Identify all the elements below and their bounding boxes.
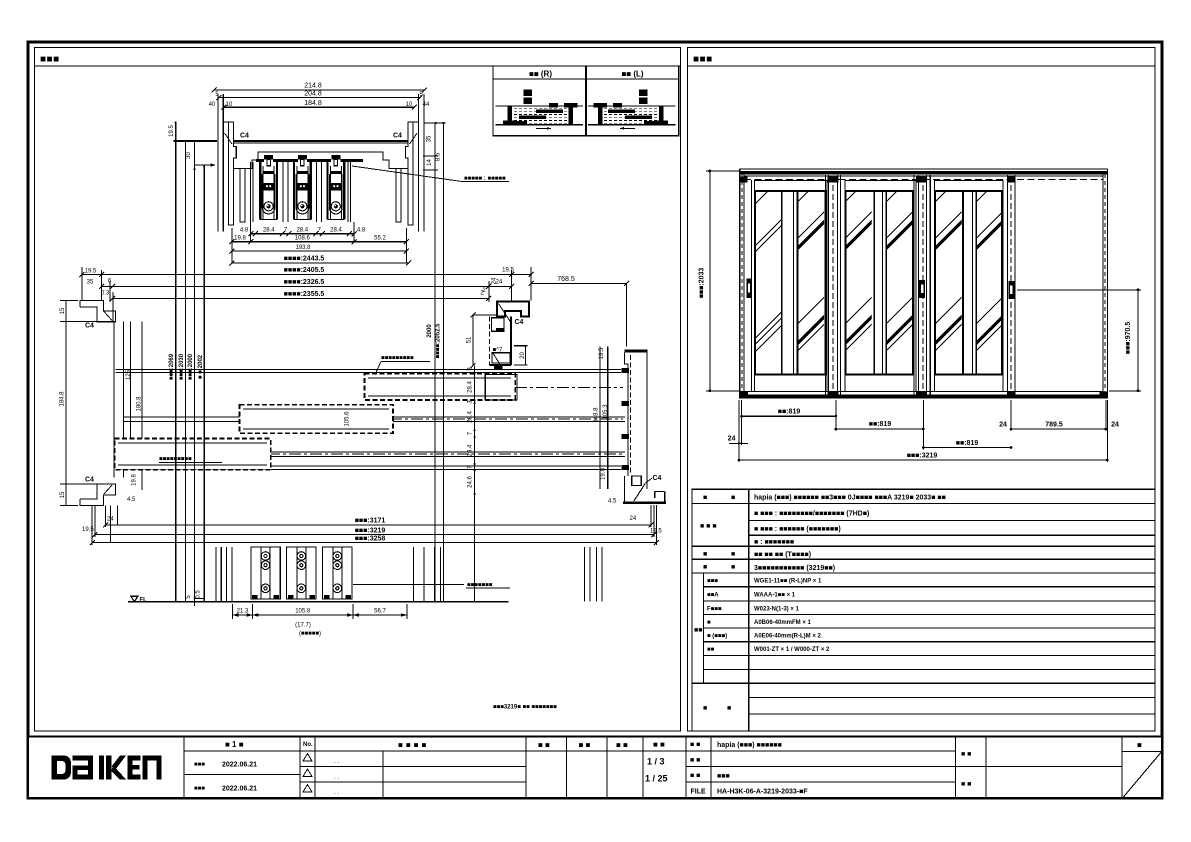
svg-text:■■■:3258: ■■■:3258 — [355, 535, 386, 542]
svg-text:■■ (R): ■■ (R) — [529, 70, 552, 79]
svg-text:56.7: 56.7 — [374, 608, 386, 614]
door B (dashed, middle) — [240, 405, 394, 434]
dim 2355.5 — [113, 297, 489, 299]
row 193.8 — [232, 250, 407, 252]
PLAN SECTION (middle of left panel) — [60, 122, 667, 601]
extension verticals left — [82, 267, 531, 322]
svg-text:■■: ■■ — [694, 627, 702, 634]
hanger/door assembly 2 — [294, 155, 311, 220]
flat rail leader — [353, 584, 464, 586]
svg-text:FILE: FILE — [691, 789, 706, 796]
door leaf 3 — [935, 181, 1003, 392]
svg-text:108.6: 108.6 — [295, 236, 311, 242]
SPEC TABLE — [692, 489, 1155, 731]
svg-text:C4: C4 — [85, 477, 94, 484]
svg-text:■■A: ■■A — [707, 593, 719, 599]
svg-text:■: ■ — [731, 564, 735, 571]
svg-text:1 / 3: 1 / 3 — [647, 757, 665, 767]
sub jamb (mullion) plan — [467, 277, 529, 369]
sill dims — [232, 614, 407, 616]
door C (dashed, bottom) — [115, 439, 271, 470]
head detail dims below — [229, 222, 409, 263]
svg-text:24: 24 — [728, 436, 736, 443]
DAIKEN logo — [52, 756, 162, 780]
svg-text:No.: No. — [303, 742, 313, 748]
svg-text:■■■:3171: ■■■:3171 — [355, 518, 386, 525]
svg-text:184.8: 184.8 — [304, 100, 322, 107]
svg-text:28.4: 28.4 — [296, 228, 308, 234]
left wall line — [173, 140, 217, 142]
svg-text:193.8: 193.8 — [295, 245, 311, 251]
dim row 4: overall width 3219 — [739, 459, 1107, 461]
svg-text:105.3: 105.3 — [603, 404, 609, 420]
roller unit 1 — [251, 547, 280, 599]
svg-text:789.5: 789.5 — [1045, 421, 1063, 428]
frame right stile — [1100, 169, 1109, 399]
door leaf 2 — [845, 181, 916, 392]
svg-text:. .: . . — [334, 790, 339, 796]
svg-text:2022.06.21: 2022.06.21 — [222, 762, 257, 769]
door bottom bars — [216, 547, 602, 602]
svg-text:204.8: 204.8 — [304, 91, 322, 98]
hanger/door assembly 1 — [260, 155, 277, 220]
svg-text:■■: ■■ — [707, 647, 715, 653]
svg-text:■■■: ■■■ — [194, 786, 205, 792]
svg-text:F■■■: F■■■ — [707, 607, 722, 613]
svg-text:■■■■:2355.5: ■■■■:2355.5 — [284, 291, 325, 298]
svg-text:0.5: 0.5 — [196, 590, 202, 599]
svg-text:180.8: 180.8 — [137, 396, 143, 412]
svg-text:1 / 25: 1 / 25 — [645, 774, 668, 784]
svg-text:■■■■■■■: ■■■■■■■ — [467, 582, 493, 588]
svg-text:10: 10 — [406, 102, 413, 108]
frame left stile — [740, 169, 755, 399]
door A leader note — [376, 356, 431, 374]
dim 2405.5 — [82, 274, 531, 276]
svg-text:■■■:2069: ■■■:2069 — [169, 353, 175, 380]
svg-text:28.4: 28.4 — [467, 381, 473, 393]
FL marker — [131, 596, 138, 601]
svg-text:■: ■ — [731, 495, 735, 502]
svg-text:0.3: 0.3 — [101, 291, 110, 297]
svg-text:■■■■:2052.5: ■■■■:2052.5 — [436, 323, 442, 359]
svg-text:WGE1-11■■ (R-L)NP × 1: WGE1-11■■ (R-L)NP × 1 — [754, 579, 822, 585]
svg-text:30: 30 — [186, 152, 192, 159]
title block column lines — [184, 737, 1122, 799]
long dim 3219 — [95, 534, 654, 536]
svg-text:HA-H3K-06-A-3219-2033-■F: HA-H3K-06-A-3219-2033-■F — [717, 789, 808, 796]
svg-text:8.5: 8.5 — [436, 152, 442, 161]
door1 glass lite B diagonals — [797, 173, 827, 352]
svg-text:105.8: 105.8 — [295, 608, 311, 614]
frame bottom / floor line — [740, 391, 1108, 396]
svg-text:■■■:3219: ■■■:3219 — [907, 452, 938, 459]
svg-text:hapia (■■■) ■■■■■■: hapia (■■■) ■■■■■■ — [717, 742, 782, 749]
door A (dashed, top) — [364, 374, 517, 401]
ELEVATION VIEW (front view of 3-panel sliding door) — [699, 169, 1142, 462]
svg-text:28.4: 28.4 — [467, 411, 473, 423]
svg-text:19.5: 19.5 — [85, 268, 97, 274]
svg-text:WAAA-1■■ × 1: WAAA-1■■ × 1 — [754, 593, 796, 599]
svg-text:■ ■: ■ ■ — [653, 740, 665, 749]
svg-text:■■■■:2443.5: ■■■■:2443.5 — [284, 256, 325, 263]
rail web lines between hangers — [251, 162, 351, 222]
right jamb head — [393, 94, 424, 232]
small side dims of head section — [186, 122, 446, 170]
rail leader note — [352, 166, 509, 182]
mini diagram right-pull — [496, 90, 583, 130]
hanger/door assembly 3 — [327, 155, 344, 220]
svg-text:4.5: 4.5 — [608, 499, 617, 505]
svg-text:40: 40 — [209, 102, 216, 108]
svg-text:■■:819: ■■:819 — [778, 409, 801, 416]
svg-text:28.4: 28.4 — [263, 228, 275, 234]
right jamb bottom hook — [624, 476, 626, 503]
svg-text:28.4: 28.4 — [467, 444, 473, 456]
extension verticals — [232, 222, 407, 263]
svg-text:■ ■: ■ ■ — [961, 781, 971, 788]
svg-text:C4: C4 — [515, 319, 524, 326]
svg-text:■ ■: ■ ■ — [690, 757, 700, 764]
svg-text:■ ■: ■ ■ — [579, 741, 591, 750]
elevation bottom dimensions — [728, 400, 1119, 462]
svg-text:■■■: ■■■ — [707, 579, 718, 585]
svg-text:35: 35 — [87, 280, 94, 286]
svg-text:55.2: 55.2 — [374, 236, 386, 242]
frame top rail — [740, 169, 1108, 180]
svg-text:■■■3219■ ■■ ■■■■■■■: ■■■3219■ ■■ ■■■■■■■ — [493, 705, 557, 711]
svg-text:■: ■ — [727, 705, 731, 712]
svg-text:(■■■■■): (■■■■■) — [299, 631, 321, 637]
svg-text:■■■■: ■■■■ — [398, 741, 429, 750]
svg-text:4.8: 4.8 — [357, 228, 366, 234]
dim row 2: door width 819 / 789.5 / 24 — [836, 428, 924, 430]
svg-text:19.8: 19.8 — [132, 474, 138, 486]
svg-text:148.8: 148.8 — [594, 407, 600, 423]
svg-text:19.5: 19.5 — [502, 267, 514, 273]
door2 handle — [919, 280, 925, 298]
right jamb (plan) — [622, 351, 667, 503]
svg-text:■■■: ■■■ — [194, 762, 205, 768]
elevation dimension: handle height 970.5 (right) — [1017, 288, 1141, 392]
svg-text:■ (■■■): ■ (■■■) — [707, 634, 727, 640]
page cell diagonal — [1123, 752, 1162, 798]
svg-text:A0E06-40mm(R-L)M × 2: A0E06-40mm(R-L)M × 2 — [754, 634, 822, 640]
svg-text:W023-N(1-3) × 1: W023-N(1-3) × 1 — [754, 607, 800, 613]
door3 glass lite A diagonals — [934, 173, 964, 352]
svg-text:20: 20 — [520, 352, 526, 359]
svg-text:125: 125 — [126, 369, 132, 380]
spec value texts — [754, 495, 946, 573]
svg-text:■: ■ — [731, 551, 735, 558]
svg-text:184.8: 184.8 — [60, 391, 66, 407]
svg-text:■■■:970.5: ■■■:970.5 — [1125, 322, 1132, 355]
dim row 1: door width 819 — [742, 415, 836, 417]
svg-text:C4: C4 — [85, 323, 94, 330]
svg-text:■ ■: ■ ■ — [616, 741, 628, 750]
svg-text:■■■: ■■■ — [717, 773, 730, 780]
right vertical dim chain — [467, 366, 475, 602]
svg-text:105.6: 105.6 — [345, 411, 351, 427]
rail bottom flange band — [256, 159, 363, 162]
right panel frame (shomenzu) — [688, 48, 1156, 732]
svg-text:■: ■ — [703, 495, 707, 502]
svg-text:24: 24 — [630, 516, 637, 522]
svg-text:10: 10 — [226, 102, 233, 108]
svg-text:■■:819: ■■:819 — [956, 440, 979, 447]
dim row 3: door width 819 / 24 — [923, 447, 1011, 449]
revision triangles — [303, 754, 312, 793]
svg-text:■■■:2030: ■■■:2030 — [179, 353, 185, 380]
spec table label texts — [694, 495, 735, 713]
svg-text:■ ■: ■ ■ — [538, 741, 550, 750]
svg-text:■■ (L): ■■ (L) — [621, 70, 643, 79]
svg-text:24: 24 — [999, 421, 1007, 428]
svg-text:51: 51 — [467, 336, 473, 343]
svg-text:28.4: 28.4 — [330, 228, 342, 234]
long width dim lines — [79, 256, 533, 322]
right height dim pair — [434, 123, 436, 602]
svg-text:21.3: 21.3 — [237, 608, 249, 614]
svg-text:■■■■■ : ■■■■■: ■■■■■ : ■■■■■ — [464, 176, 506, 182]
title block — [28, 737, 1162, 799]
svg-text:■: ■ — [1137, 741, 1142, 750]
svg-text:A0B06-40mmFM × 1: A0B06-40mmFM × 1 — [754, 620, 812, 626]
door2 glass lite A diagonals — [844, 173, 874, 352]
plan long horizontal lines — [116, 370, 625, 470]
floor line — [128, 601, 509, 603]
svg-text:■■■:2033: ■■■:2033 — [699, 268, 706, 299]
svg-text:■■■: ■■■ — [40, 54, 60, 65]
svg-text:4.5: 4.5 — [127, 497, 136, 503]
mini diagram left-pull — [588, 90, 675, 130]
door leaf 1 — [754, 181, 827, 392]
svg-text:W001-ZT × 1 / W000-ZT ×: W001-ZT × 1 / W000-ZT × 2 — [754, 647, 830, 653]
svg-text:■■■■:2326.5: ■■■■:2326.5 — [284, 279, 325, 286]
title block row lines — [184, 751, 1162, 798]
mullion A — [826, 175, 841, 399]
svg-text:■■■■■■■■■: ■■■■■■■■■ — [381, 356, 414, 362]
dim 2326.5 — [102, 285, 512, 287]
svg-text:15: 15 — [60, 307, 66, 314]
svg-text:19.8: 19.8 — [234, 236, 246, 242]
extension lines — [739, 400, 1107, 462]
svg-text:. .: . . — [334, 775, 339, 781]
long vertical height dim lines — [176, 122, 205, 601]
svg-text:35: 35 — [427, 135, 433, 142]
centerlines dash-dot — [268, 388, 623, 455]
left jamb (plan) — [80, 301, 123, 506]
svg-text:4.8: 4.8 — [240, 228, 249, 234]
roller unit 2 — [287, 547, 316, 599]
svg-text:■: ■ — [703, 705, 707, 712]
svg-text:C4: C4 — [653, 475, 662, 482]
svg-text:■■■:2000: ■■■:2000 — [188, 353, 194, 380]
svg-text:■ ■: ■ ■ — [690, 742, 700, 749]
svg-text:19.8: 19.8 — [601, 468, 607, 480]
svg-text:768.5: 768.5 — [557, 276, 575, 283]
HEAD SECTION DETAIL (top of left panel) — [169, 83, 509, 232]
long dim 3171 — [106, 524, 651, 526]
dim 2443.5 — [232, 262, 409, 264]
elevation dimension: frame height 2033 (left) — [699, 170, 740, 393]
jamb door-stop tabs — [622, 368, 630, 373]
top rail body — [234, 141, 408, 222]
mullion B — [914, 175, 930, 399]
svg-text:14: 14 — [427, 159, 433, 166]
svg-text:■: ■ — [703, 551, 707, 558]
dim 184.8 — [209, 100, 430, 110]
svg-text:■ ■: ■ ■ — [690, 773, 700, 780]
row 19.8/108.6/55.2 — [229, 239, 409, 244]
svg-text:■ ■: ■ ■ — [961, 751, 971, 758]
svg-text:■ ■■■ : ■■■■■■■■/■■■■■■■ (7HD■: ■ ■■■ : ■■■■■■■■/■■■■■■■ (7HD■) — [754, 511, 869, 518]
svg-text:24: 24 — [492, 277, 498, 284]
svg-text:3■■■■■■■■■■■ (3219■■): 3■■■■■■■■■■■ (3219■■) — [754, 565, 835, 572]
open bay track edge — [1007, 175, 1015, 399]
spec sub labels — [707, 579, 727, 654]
svg-text:19.5: 19.5 — [169, 125, 175, 137]
svg-text:214.8: 214.8 — [304, 83, 322, 90]
MINI TABLE: sliding direction cells — [493, 66, 679, 136]
right jamb dims — [594, 347, 663, 535]
svg-text:19.5: 19.5 — [599, 347, 605, 359]
door1 glass lite A diagonals — [754, 175, 784, 353]
title block texts — [194, 740, 1142, 796]
svg-text:■ ■ ■: ■ ■ ■ — [700, 523, 717, 530]
SILL SECTION (bottom of left panel) — [90, 505, 659, 637]
svg-text:C4: C4 — [393, 133, 402, 140]
svg-text:(17.7): (17.7) — [295, 623, 311, 629]
left jamb head — [218, 94, 249, 232]
row 4.8/28.4/7/28.4/7/28.4/4.8 — [248, 231, 356, 236]
svg-text:■: ■ — [703, 564, 707, 571]
svg-text:hapia (■■■) ■■■■■■ ■■3■■■ 0: hapia (■■■) ■■■■■■ ■■3■■■ 0J■■■■ ■■■A 32… — [754, 495, 946, 502]
long dim 3258 — [92, 542, 656, 544]
svg-text:■ ■■■ : ■■■■■■ (■■■■■■■): ■ ■■■ : ■■■■■■ (■■■■■■■) — [754, 526, 841, 533]
svg-text:■■■■:2405.5: ■■■■:2405.5 — [284, 267, 325, 274]
svg-text:C4: C4 — [240, 133, 249, 140]
door3 handle — [1008, 281, 1014, 299]
svg-text:■ 1 ■: ■ 1 ■ — [225, 740, 244, 749]
left panel frame (dammenzu) — [35, 48, 681, 732]
svg-text:■■■: ■■■ — [693, 54, 713, 65]
door3 glass lite B diagonals — [975, 173, 1005, 352]
left jamb small dims — [60, 301, 143, 534]
svg-text:15: 15 — [60, 491, 66, 498]
door2 glass lite B diagonals — [885, 173, 915, 352]
svg-text:■ ■:2002: ■ ■:2002 — [198, 354, 204, 379]
svg-text:24: 24 — [1111, 421, 1119, 428]
dim 204.8 — [215, 91, 423, 101]
door1 handle — [746, 279, 751, 298]
svg-text:■■:819: ■■:819 — [869, 421, 892, 428]
svg-text:■■ ■■ ■■ (T■■■■): ■■ ■■ ■■ (T■■■■) — [754, 552, 811, 559]
dim 768.5 — [529, 276, 629, 346]
svg-text:■: ■ — [707, 620, 711, 626]
svg-text:24.6: 24.6 — [467, 476, 473, 488]
dim 214.8 — [212, 83, 427, 93]
roller unit 3 — [323, 547, 352, 599]
svg-text:2000: 2000 — [427, 324, 433, 338]
svg-text:■■■:3219: ■■■:3219 — [355, 527, 386, 534]
svg-text:2022.06.21: 2022.06.21 — [222, 786, 257, 793]
svg-text:. .: . . — [334, 759, 339, 765]
svg-text:■ : ■■■■■■■: ■ : ■■■■■■■ — [754, 539, 794, 546]
extension verticals for long dims — [92, 505, 656, 545]
svg-text:FL: FL — [140, 597, 148, 603]
